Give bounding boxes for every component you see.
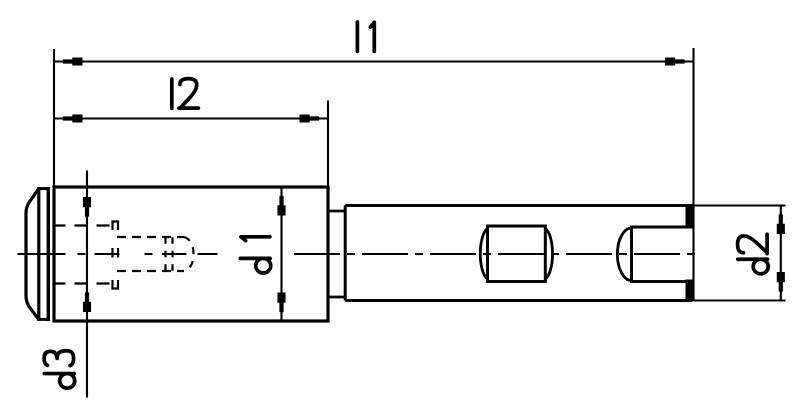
d3 lower arrow (83, 292, 91, 312)
end recess top line (632, 226, 688, 229)
shaft bottom edge (345, 299, 689, 302)
label l2 (172, 79, 199, 109)
hidden bore upper line (53, 224, 113, 226)
d2 top arrow (777, 214, 785, 234)
hidden bore lower line (53, 282, 113, 284)
end recess bottom line (632, 280, 688, 283)
hidden thread end left (164, 237, 166, 271)
centerline left segment (18, 253, 218, 255)
hidden thread lower line (117, 270, 184, 272)
label d2 (738, 234, 769, 274)
cross hole rectangle (488, 226, 546, 282)
end recess left edge (630, 226, 633, 284)
cross hole left arc (480, 229, 487, 280)
d2 top extension line (694, 204, 786, 206)
l1 left arrow (63, 57, 83, 65)
body cylinder outline (54, 187, 328, 321)
d2 bottom extension line (694, 299, 786, 301)
l1 right extension line (692, 48, 694, 301)
neck bottom line (328, 296, 345, 299)
hidden bore end top cap (111, 220, 119, 222)
hidden bore end right (117, 222, 119, 289)
d1 bottom arrow (277, 293, 285, 313)
end recess arc (617, 228, 631, 281)
cap outline left (26, 188, 39, 319)
neck top line (328, 210, 345, 213)
cap right face (47, 187, 50, 321)
cross hole right arc (545, 229, 552, 280)
shaft left face (344, 206, 347, 301)
dimension l1 line (54, 60, 694, 62)
hidden drill cone (184, 237, 194, 271)
label l1 (357, 22, 374, 51)
d3 upper arrow (83, 197, 91, 217)
d2 bottom arrow (777, 272, 785, 292)
shaft top edge (345, 204, 689, 207)
dimension d1 line (280, 187, 282, 321)
hidden bore end left (111, 222, 113, 289)
l2 left arrow (63, 114, 83, 122)
l2 right extension line (327, 101, 329, 187)
dimension l2 line (54, 117, 328, 119)
l1 right arrow (665, 57, 685, 65)
l2 right arrow (300, 114, 320, 122)
hidden thread upper line (117, 236, 184, 238)
d1 top arrow (277, 196, 285, 216)
hidden bore end bottom cap (111, 287, 119, 289)
shaft end face lower segment (686, 280, 693, 303)
cap top edge (37, 187, 48, 190)
l1 left extension line (53, 49, 55, 186)
shaft end face upper segment (686, 204, 693, 229)
hidden thread end right (171, 237, 173, 271)
label d3 (44, 351, 75, 388)
cap inner edge (37, 187, 40, 320)
centerline right segment (294, 253, 701, 255)
dimension d3 line (86, 171, 88, 398)
cap bottom edge (37, 318, 48, 321)
dimension d2 line (780, 206, 782, 301)
label d1 (240, 237, 270, 273)
